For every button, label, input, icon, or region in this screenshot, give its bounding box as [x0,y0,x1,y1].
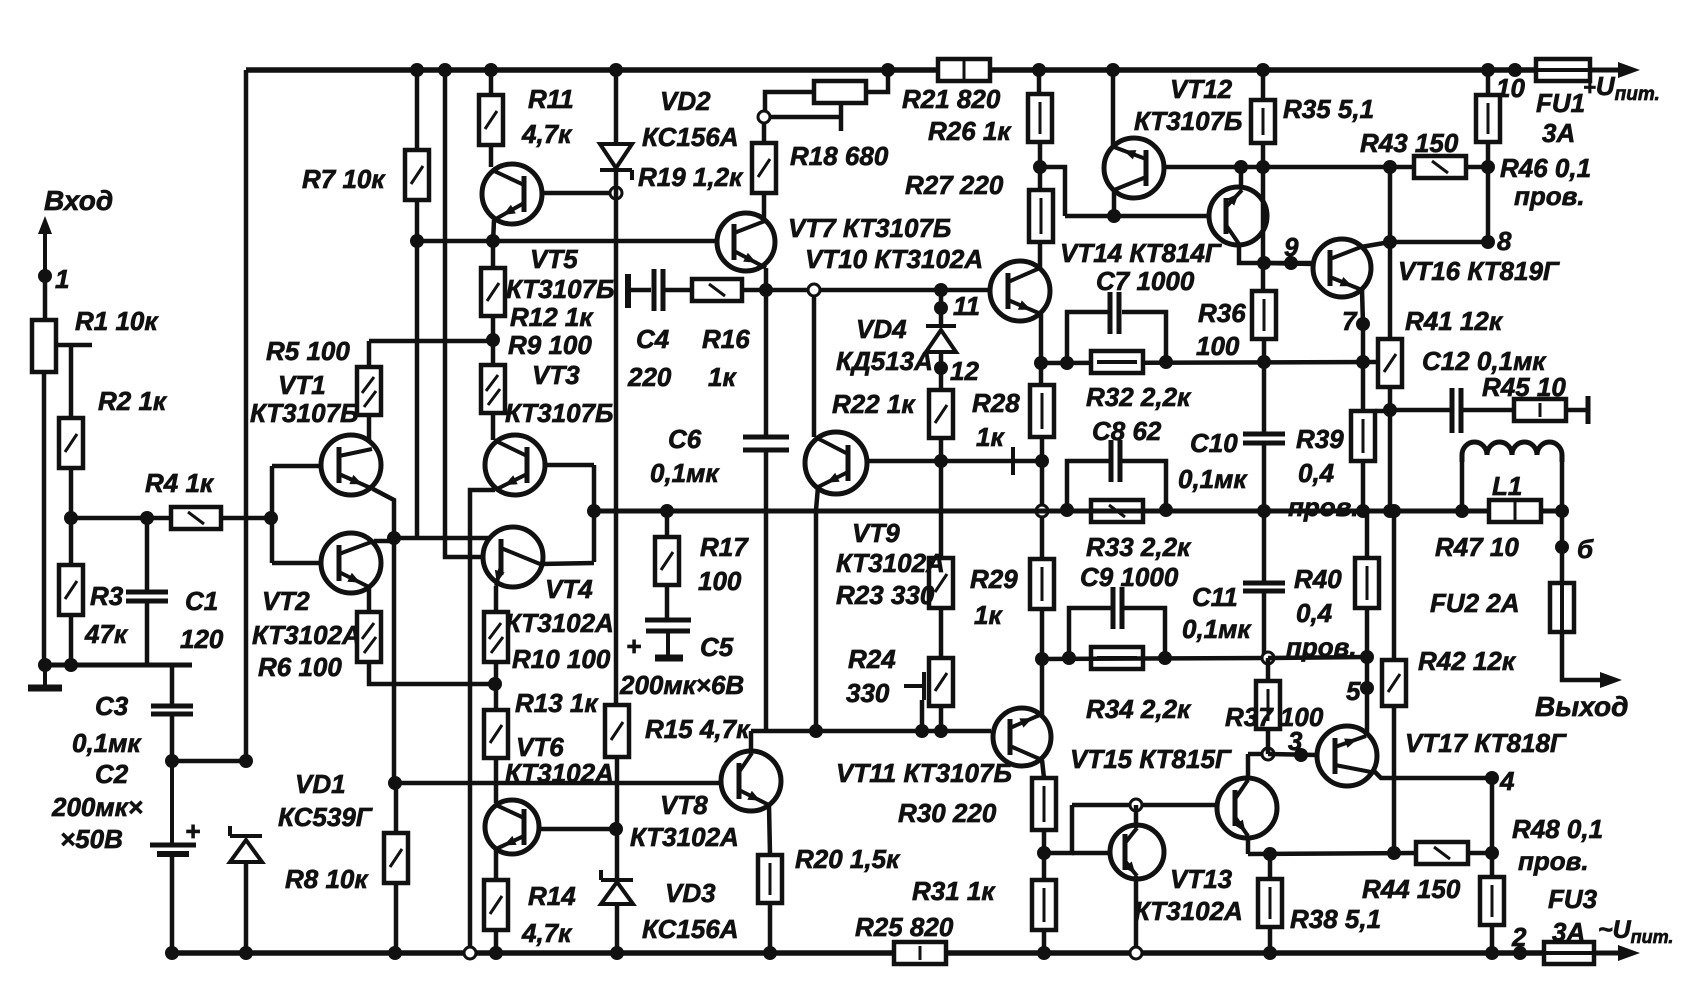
transistor VT17 [1317,726,1377,786]
svg-text:R11: R11 [528,84,574,114]
wire VT4 emitter [494,586,499,612]
node L1 right [1555,504,1569,518]
wire R42 bottom [1392,706,1397,853]
wire R24 bottom [939,706,944,731]
svg-text:КТ3102А: КТ3102А [630,822,739,852]
svg-text:VT8: VT8 [660,790,708,820]
resistor R18 [814,81,866,103]
wire R17 to C5 [665,585,670,620]
svg-text:L1: L1 [1492,471,1522,501]
svg-text:VT15 КТ815Г: VT15 КТ815Г [1070,744,1232,774]
transistor VT4 [483,527,543,587]
svg-text:R1 10к: R1 10к [75,306,159,336]
test point VT3e bottom [464,947,476,959]
node R17 top [660,504,674,518]
wire VT11 emitter [1042,760,1044,778]
wire VT5 emitter [493,220,494,243]
wire node11 to VD4 [939,290,944,326]
wire mid bus [594,509,1565,514]
svg-text:R26 1к: R26 1к [928,116,1012,146]
node R2/R3/R4 junction [64,511,78,525]
wire VT2 emitter chain [369,662,495,684]
node R35/R43 [1256,160,1270,174]
capacitor C3 [151,704,193,709]
svg-text:R16: R16 [702,324,750,354]
node VT14 emitter top [1234,160,1248,174]
capacitor C1 [126,590,168,595]
svg-text:×50В: ×50В [60,824,123,854]
svg-text:100: 100 [1196,331,1240,361]
wire R23-R24 link [939,608,944,658]
wire C1 top [145,518,150,592]
wire VT17 right lead [1374,771,1492,778]
svg-text:VT16 КТ819Г: VT16 КТ819Г [1398,256,1560,286]
capacitor C7 [1108,292,1113,334]
node VT14c/R35R36 [1257,256,1271,270]
svg-text:7: 7 [1342,306,1358,336]
wire R12-R9 link [491,316,496,365]
wire R39 bottom [1361,461,1366,511]
svg-text:5: 5 [1346,676,1361,706]
node C7 right [1159,355,1173,369]
node R40/R42 wire [1360,650,1374,664]
wire C4 to R16 [665,288,692,293]
wire R46 to node8 [1486,142,1491,242]
svg-text:R2 1к: R2 1к [98,386,168,416]
wire R28 bottom [1040,437,1045,461]
node R48 bottom [1485,946,1499,960]
wire VT9 emitter down [816,487,818,510]
svg-text:пров.: пров. [1286,632,1357,662]
transistor VT14 [1209,187,1267,245]
node R8 top [388,776,402,790]
wire VT14 emitter [1239,167,1244,189]
capacitor C4 [652,269,657,311]
node VT16c/R41 [1383,235,1397,249]
resistor R42 [1382,660,1406,706]
node 12 [934,361,948,375]
fuse FU3 [1544,942,1594,964]
svg-text:R35 5,1: R35 5,1 [1283,94,1374,124]
svg-text:R27 220: R27 220 [905,170,1004,200]
node R41/C12 [1383,403,1397,417]
svg-text:R3: R3 [90,581,124,611]
node R8 bottom [388,946,402,960]
node VT12c [1107,209,1121,223]
transistor VT6 [485,800,539,854]
capacitor C12 [1450,388,1455,433]
resistor R41 [1378,339,1402,387]
wire VT5 base [542,191,610,196]
wire VT9 base [866,459,1041,464]
test point VT13 emitter bottom [1130,947,1142,959]
wire R40 bottom [1365,608,1370,688]
wire R10-R13 link [494,662,499,710]
wire R1 wiper [56,343,92,348]
test point R37 top [1262,652,1274,664]
node R7 top [410,63,424,77]
svg-text:R31 1к: R31 1к [912,876,996,906]
wire R45 out [1566,408,1586,413]
svg-text:VT14 КТ814Г: VT14 КТ814Г [1060,238,1222,268]
svg-text:R45 10: R45 10 [1482,372,1566,402]
wire rail to R40 [1268,657,1367,658]
wire C6 top [764,290,769,437]
svg-text:C5: C5 [700,632,734,662]
resistor R19 [752,143,776,193]
wire R48 bottom [1490,925,1495,953]
wire VT2 base [272,561,322,566]
wire R40 top lead [1365,511,1370,558]
svg-text:+: + [626,631,641,661]
arrowhead +U output [1618,62,1640,78]
resistor R9 [481,365,505,413]
wire R35-R36 chain [1261,143,1266,291]
wire R20 bottom [768,903,773,953]
wire VT13 collector [1134,805,1139,828]
node R38 bottom [1263,946,1277,960]
node R36/C10 [1257,355,1271,369]
node R24 bottom [934,724,948,738]
test point VT9 collector [808,284,820,296]
wire VT3 emitter elbow [470,490,495,953]
svg-text:Вход: Вход [44,185,113,216]
node 7 [1356,317,1370,331]
node VT12 emitter top [1106,63,1120,77]
node C7 left [1060,356,1074,370]
svg-text:КТ3102А: КТ3102А [505,608,614,638]
node VT9e [809,724,823,738]
transistor VT11 [993,708,1051,766]
svg-text:220: 220 [627,362,672,392]
resistor R38 [1258,879,1282,927]
wire VT10 collector [1038,242,1043,268]
wire VT2 collector [374,539,394,544]
svg-text:R21 820: R21 820 [902,84,1001,114]
wire VD1 to bottom bus [244,862,249,953]
capacitor C10 [1243,432,1285,437]
resistor R45 [1514,399,1566,421]
svg-text:R25 820: R25 820 [855,912,954,942]
wire output down [1560,511,1565,583]
test point R18/R19 [758,111,770,123]
svg-text:R42 12к: R42 12к [1418,646,1517,676]
wire R26-R27 link [1038,142,1043,190]
wire VT11 base rail [751,729,991,734]
wire R26 top [1037,70,1042,94]
node 2 [1513,946,1527,960]
test point VD2/VT5 [610,187,622,199]
arrowhead output [1600,672,1622,688]
wire C12 left [1390,408,1452,413]
wire C3 to C2 node [170,714,175,761]
wire R38 bottom [1268,927,1273,953]
svg-text:1к: 1к [974,600,1003,630]
transistor VT15 [1217,778,1277,838]
wire VT1 collector [367,415,372,441]
svg-text:0,4: 0,4 [1296,598,1333,628]
node C9 left [1062,651,1076,665]
svg-text:200мк×: 200мк× [51,792,143,822]
node R14 bottom [489,946,503,960]
wire VT13 base [1072,851,1110,856]
wire node7 down [1361,324,1366,411]
wire VT12 base [1163,165,1414,170]
wire VT6 emitter [494,849,499,880]
svg-text:б: б [1577,534,1594,564]
svg-text:R5 100: R5 100 [266,336,350,366]
node VT7e/C6 [759,283,773,297]
resistor R15 [605,705,629,757]
wire node8 wire [1390,240,1488,245]
node C2 bottom [165,946,179,960]
node R43/R41 [1383,160,1397,174]
capacitor C8 loop [1067,461,1109,509]
wire R5 top [367,341,372,367]
svg-text:VT4: VT4 [545,574,593,604]
svg-text:C7 1000: C7 1000 [1096,266,1195,296]
node C8 right [1159,503,1173,517]
resistor R31 [1032,880,1056,930]
resistor R23 [929,558,953,608]
resistor R44 [1416,842,1468,864]
resistor R3 [59,565,83,615]
wire VT2 emitter to R6 [367,587,372,612]
node mid-bus start [587,504,601,518]
node VT5e/R12 [486,234,500,248]
svg-text:КС539Г: КС539Г [278,802,373,832]
wire VT15 base rail [1072,803,1217,808]
ground [43,665,47,687]
capacitor C5 electrolytic [645,618,691,623]
transistor VT13 [1110,825,1164,879]
svg-text:КТ3107Б: КТ3107Б [506,274,614,304]
wire bottom bus after FU3 [1594,951,1624,956]
wire R38 top lead [1268,854,1273,879]
node R26/R27 [1033,160,1047,174]
svg-text:R29: R29 [970,564,1018,594]
svg-text:C1: C1 [185,586,218,616]
svg-text:R4 1к: R4 1к [145,468,215,498]
svg-text:Выход: Выход [1535,691,1628,722]
resistor R36 [1252,291,1276,339]
wire R2 to node [69,468,74,518]
node R39 top [1356,355,1370,369]
wire VT11 collector [1040,659,1045,715]
svg-text:R33 2,2к: R33 2,2к [1086,532,1192,562]
node 3 [1294,748,1308,762]
svg-text:R46 0,1: R46 0,1 [1500,153,1591,183]
capacitor C6 [743,435,789,440]
wire VT5 collector [489,145,494,167]
node base link / R4 [264,511,278,525]
transistor VT10 [990,261,1050,321]
node R42/R44 [1387,846,1401,860]
svg-text:КТ3107Б: КТ3107Б [1134,106,1242,136]
svg-text:1: 1 [55,264,69,294]
resistor R33 [1091,500,1143,522]
wire VT8 base long [395,781,722,786]
node VD1 top [239,754,253,768]
wire R4 to VT1/VT2 bases [221,516,271,521]
zener VD2 [600,168,632,172]
wire R3 top [69,518,74,565]
resistor R34 [1091,647,1143,669]
resistor R28 [1030,385,1054,437]
svg-text:R34 2,2к: R34 2,2к [1086,694,1192,724]
node VT10e/R28 [1034,356,1048,370]
svg-text:R14: R14 [528,881,576,911]
resistor R47 [1489,500,1541,522]
test point R29 bus [1036,505,1048,517]
wire VT3 base [545,463,594,468]
svg-text:4,7к: 4,7к [521,119,573,149]
wire R11 top [489,70,494,95]
test point R37 bottom [1262,748,1274,760]
wire VT16 emitter [1362,290,1363,324]
wire R15 to VD3 [615,757,620,880]
svg-text:R8 10к: R8 10к [285,864,369,894]
node R42 bus [1387,504,1401,518]
svg-text:C2: C2 [95,759,129,789]
wire R44 to R48 [1468,851,1492,856]
capacitor C9 loop [1069,608,1111,658]
svg-text:КС156А: КС156А [642,122,739,152]
svg-text:C10: C10 [1190,428,1238,458]
node R12/R9/R5 [486,333,500,347]
wire VD4 to R22 [939,352,944,390]
wire R43 to R46 [1466,165,1488,170]
svg-text:R10 100: R10 100 [512,644,611,674]
svg-text:4: 4 [1499,766,1515,796]
node R18 right [881,63,895,77]
node R7/VT5e/VT7base [410,234,424,248]
node R31 bottom [1037,946,1051,960]
node VD4 tap [934,283,948,297]
svg-text:пров.: пров. [1288,492,1359,522]
terminal bar C4 input [625,274,631,308]
node R28/VT9base/T-bar [1035,454,1049,468]
node VD1 bottom [239,946,253,960]
node R39/R40 bus [1356,504,1370,518]
wire R8 bottom [394,883,399,953]
svg-text:C3: C3 [95,691,129,721]
svg-text:КТ3102А: КТ3102А [252,620,361,650]
svg-text:VT11 КТ3107Б: VT11 КТ3107Б [836,758,1012,788]
svg-text:11: 11 [953,291,980,321]
node R26 top [1032,63,1046,77]
fuse FU2 [1550,583,1574,632]
wire top bus +U [246,67,1536,73]
svg-text:R9 100: R9 100 [508,330,592,360]
svg-text:R44 150: R44 150 [1362,874,1461,904]
node 11 [934,301,948,315]
resistor R27 [1029,190,1053,242]
svg-text:VT3: VT3 [532,360,580,390]
wire VT7 collector [762,193,767,218]
wire VT8 emitter [769,805,770,855]
svg-text:0,4: 0,4 [1298,458,1335,488]
svg-text:R22 1к: R22 1к [832,389,916,419]
resistor R39 [1351,411,1375,461]
wire R18 wiper h [770,115,841,120]
svg-text:4,7к: 4,7к [521,918,573,948]
wire R18 right elbow [866,70,888,92]
wire R16 to VT10 base [742,288,990,293]
resistor R6 [357,612,381,662]
wire L1 right [1560,460,1565,511]
node R46 bottom [1481,160,1495,174]
wire node5 to VT17 [1365,688,1370,733]
resistor R1 [32,320,56,372]
svg-text:VD4: VD4 [856,314,907,344]
svg-text:R6 100: R6 100 [258,652,342,682]
svg-text:пров.: пров. [1514,181,1585,211]
capacitor C9 [1111,587,1116,629]
wire C10 bottom [1262,443,1267,511]
capacitor C11 [1243,581,1285,586]
wire R1 bottom to ground [42,372,47,665]
resistor R17 [655,537,679,585]
inductor L1 [1462,442,1562,462]
wire VT4 collector [540,563,594,564]
wire C6 bottom [764,450,769,731]
wire C11 bottom [1262,591,1267,658]
wire R18 left elbow [765,92,814,112]
resistor R26 [1028,94,1052,142]
node C8 left [1060,503,1074,517]
wire VT12 collector [1112,190,1117,216]
wire C12 to R45 [1461,408,1514,413]
node VD2 top [609,63,623,77]
svg-text:C8 62: C8 62 [1092,416,1162,446]
svg-text:0,1мк: 0,1мк [650,458,720,488]
transistor VT2 [321,533,381,593]
svg-text:R39: R39 [1296,424,1344,454]
node VT1e/VT2c [387,531,401,545]
svg-text:КД513А: КД513А [836,346,933,376]
svg-text:КТ3107Б: КТ3107Б [250,398,358,428]
wire VT13 emitter [1134,876,1139,953]
wire VD2 top [614,70,619,142]
wire VT7 emitter [764,268,769,290]
wire R37 top lead [1266,658,1271,681]
wire VT6 base [538,827,616,832]
resistor R4 [171,507,221,529]
svg-text:200мк×6В: 200мк×6В [619,670,744,700]
wire R7 top [415,70,420,150]
svg-text:КТ3107Б: КТ3107Б [505,398,613,428]
transistor VT7 [717,213,775,271]
svg-text:1к: 1к [708,362,737,392]
input arrow [43,232,47,276]
resistor R2 [59,418,83,468]
svg-text:КС156А: КС156А [642,914,739,944]
wire R46 top lead [1486,70,1491,95]
wire VT9 collector up [812,296,817,437]
resistor R21 [938,59,990,81]
node б [1555,540,1569,554]
wire VT4 base link [445,538,484,557]
wire VT3 collector [491,413,496,440]
wire VD2 chain down [614,170,619,705]
wire ground rail [45,663,192,668]
svg-text:VT17 КТ818Г: VT17 КТ818Г [1405,728,1567,758]
wire R32 rail [1041,362,1378,363]
wire VT13 base link [1044,805,1072,853]
wire R41 bottom [1388,387,1393,410]
node C2/C3 [165,754,179,768]
